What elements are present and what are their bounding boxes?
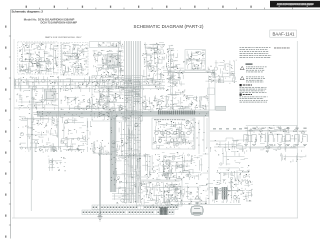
- svg-text:DCN-551/751AMP/DKN-538/658AMP: DCN-551/751AMP/DKN-538/658AMP: [277, 3, 314, 6]
- svg-text:PARTS FOR CENTER MODEL ONLY: PARTS FOR CENTER MODEL ONLY: [45, 36, 82, 39]
- svg-text:Schematic diagrams: 2: Schematic diagrams: 2: [12, 10, 44, 14]
- svg-text:SCHEMATIC DIAGRAM (PART-2): SCHEMATIC DIAGRAM (PART-2): [134, 24, 205, 29]
- svg-text:BAAF-1141: BAAF-1141: [273, 32, 296, 37]
- svg-text:DCN-751AMP/DKN-658AMP: DCN-751AMP/DKN-658AMP: [41, 21, 78, 25]
